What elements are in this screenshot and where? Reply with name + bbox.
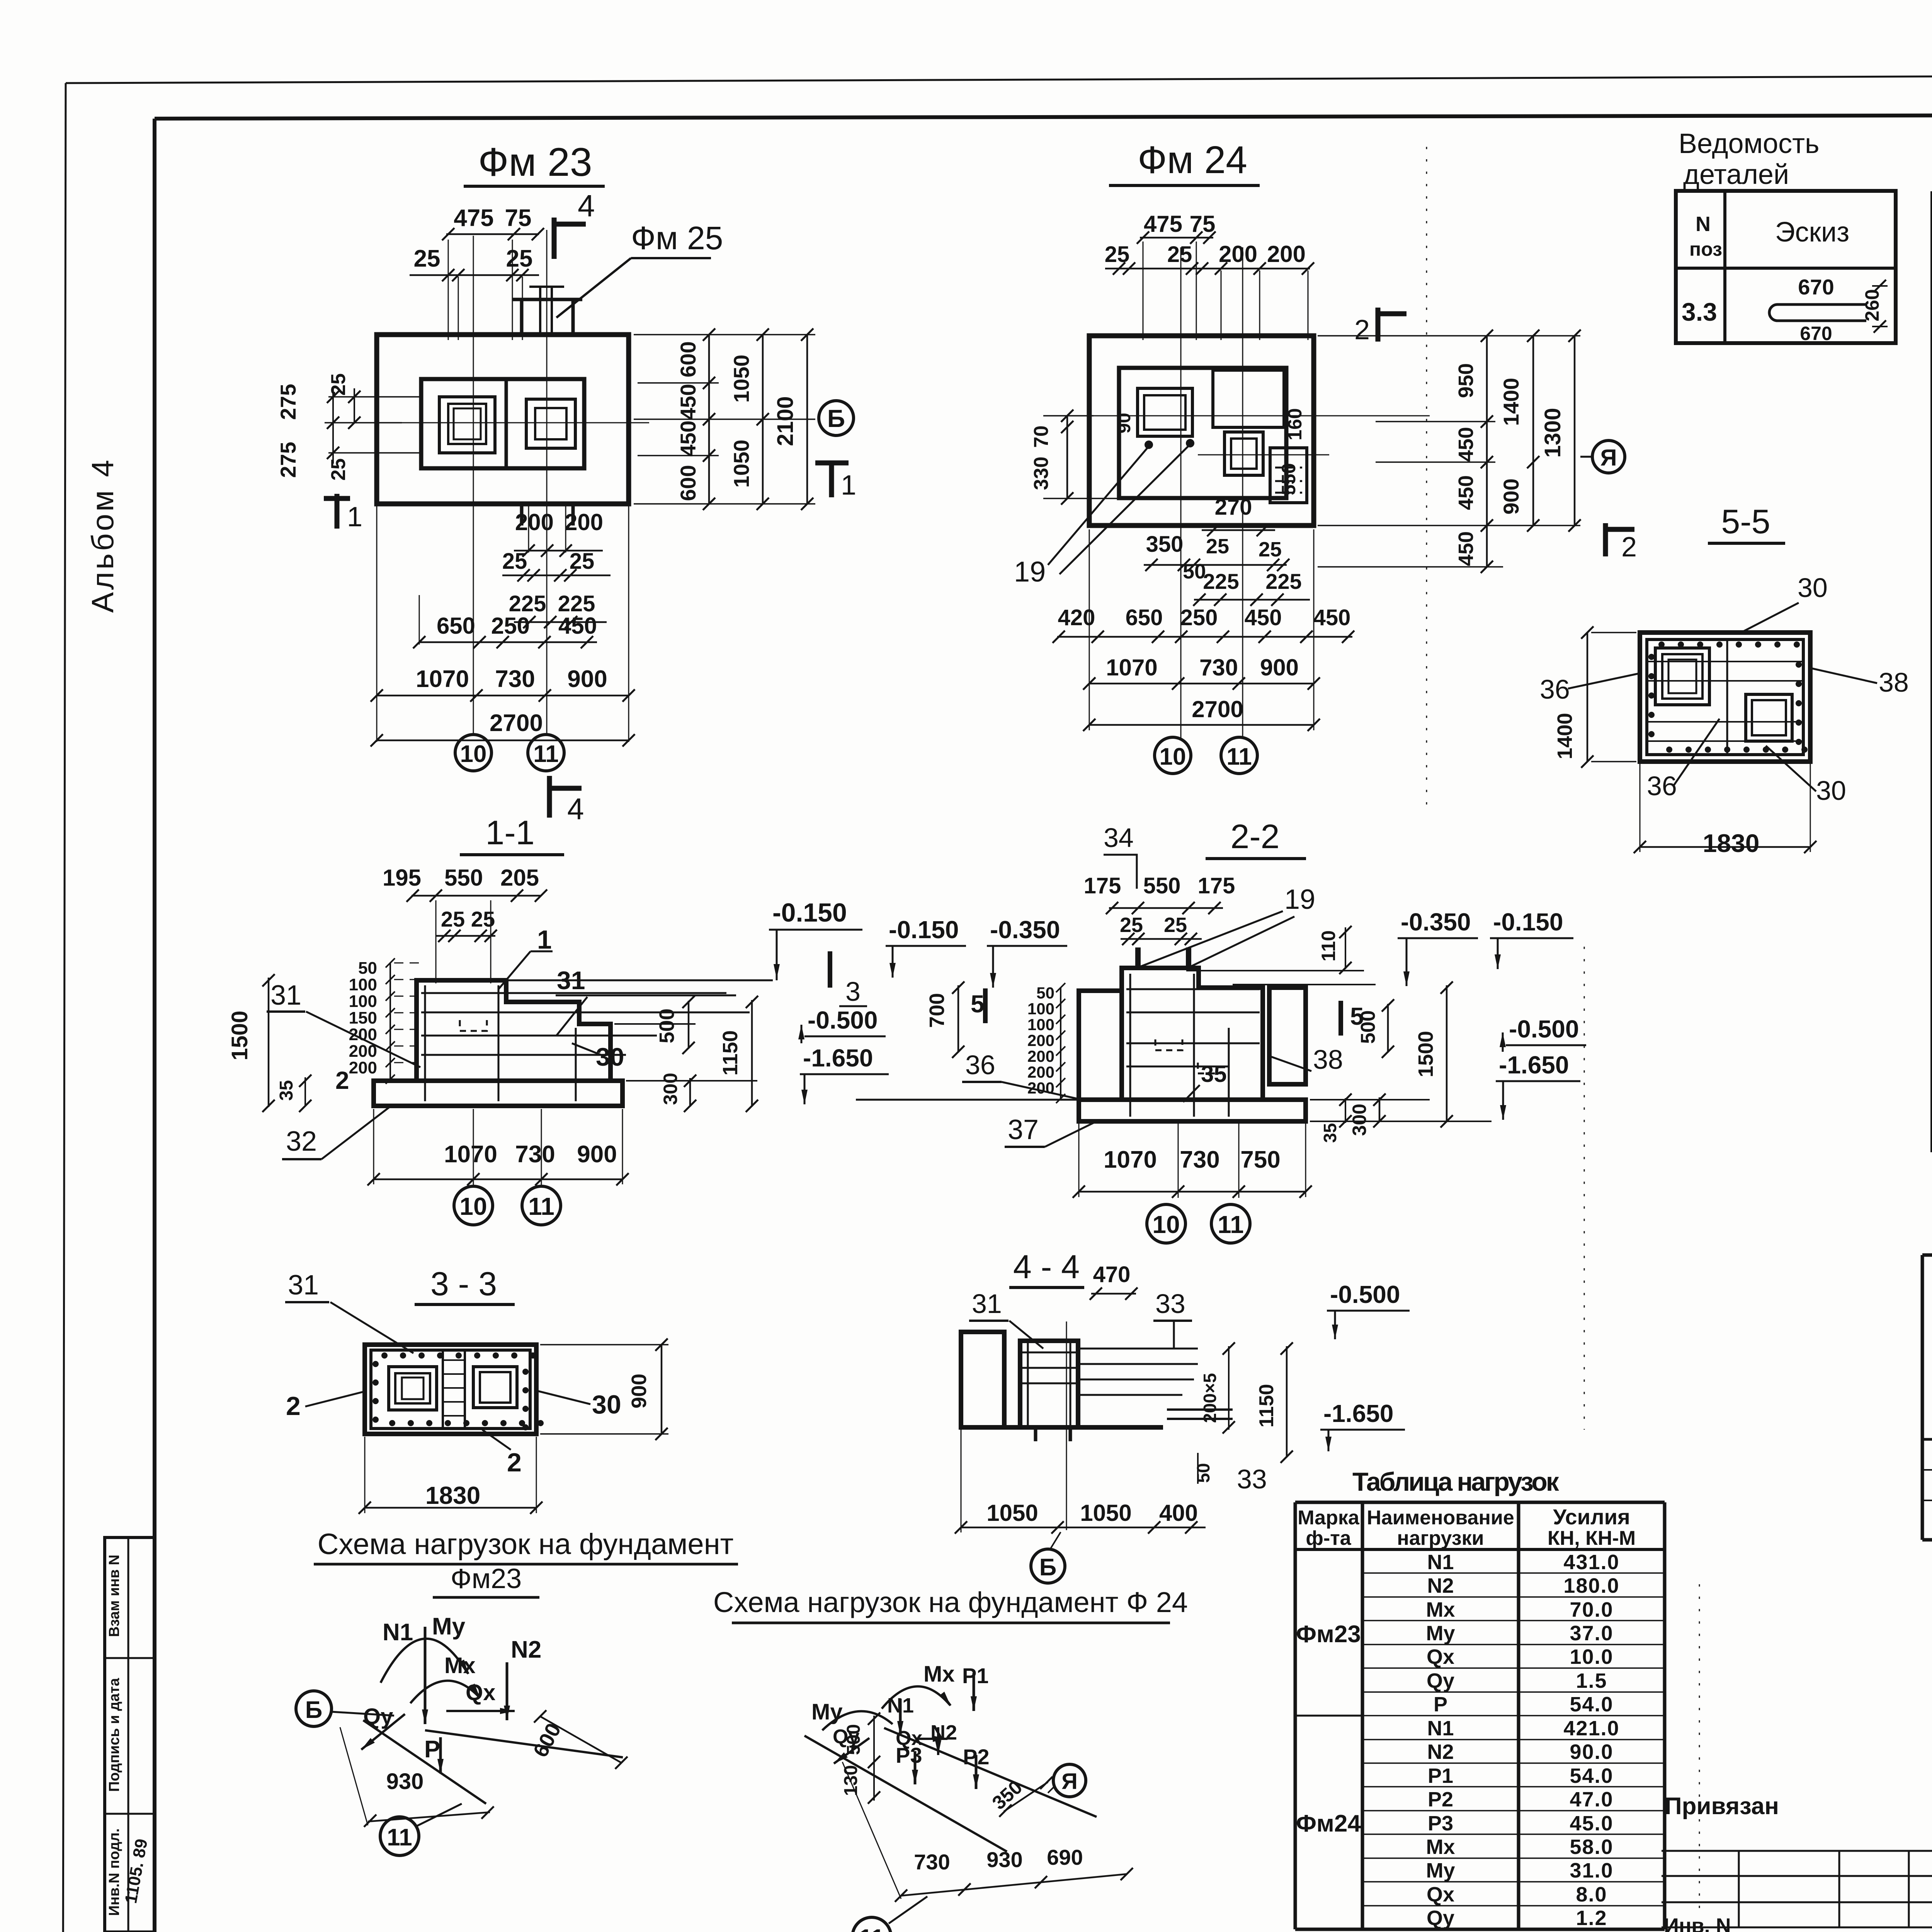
- svg-text:10.0: 10.0: [1570, 1645, 1613, 1668]
- svg-text:1070: 1070: [1104, 1146, 1157, 1173]
- svg-text:36: 36: [1540, 674, 1570, 704]
- svg-text:10: 10: [460, 741, 487, 767]
- svg-text:35: 35: [1320, 1123, 1340, 1143]
- svg-text:-0.150: -0.150: [889, 916, 959, 944]
- svg-text:2700: 2700: [1192, 696, 1243, 722]
- svg-text:Р1: Р1: [1428, 1764, 1453, 1787]
- svg-text:25: 25: [1105, 242, 1130, 267]
- svg-text:900: 900: [628, 1374, 651, 1408]
- svg-text:500: 500: [655, 1009, 679, 1043]
- svg-text:50: 50: [1036, 984, 1054, 1002]
- svg-text:2100: 2100: [773, 396, 798, 446]
- svg-text:260: 260: [1861, 289, 1883, 321]
- svg-text:450: 450: [1454, 475, 1478, 510]
- svg-text:10: 10: [459, 1192, 487, 1220]
- svg-text:58.0: 58.0: [1570, 1835, 1613, 1859]
- svg-text:38: 38: [1879, 667, 1909, 697]
- svg-text:N2: N2: [1427, 1740, 1454, 1764]
- svg-text:250: 250: [1180, 605, 1218, 630]
- svg-text:200: 200: [515, 509, 554, 535]
- svg-text:N2: N2: [511, 1636, 541, 1663]
- svg-text:550: 550: [444, 865, 483, 891]
- svg-text:25: 25: [414, 245, 440, 272]
- svg-text:11: 11: [1226, 743, 1252, 770]
- svg-text:300: 300: [1349, 1104, 1370, 1136]
- svg-text:250: 250: [491, 613, 530, 639]
- svg-text:Му: Му: [432, 1613, 466, 1640]
- svg-text:25: 25: [1167, 242, 1192, 267]
- svg-text:32: 32: [286, 1126, 317, 1157]
- svg-text:450: 450: [558, 613, 597, 639]
- svg-text:475: 475: [454, 205, 493, 231]
- svg-text:Мх: Мх: [444, 1653, 476, 1678]
- svg-text:2700: 2700: [490, 710, 543, 736]
- svg-text:Я: Я: [1061, 1769, 1078, 1794]
- svg-text:450: 450: [1454, 427, 1478, 462]
- svg-text:37.0: 37.0: [1570, 1622, 1613, 1645]
- svg-text:-0.150: -0.150: [1493, 908, 1563, 936]
- svg-text:Qх: Qх: [466, 1680, 495, 1705]
- svg-text:5: 5: [971, 990, 985, 1018]
- svg-text:11: 11: [528, 1192, 554, 1220]
- svg-text:Наименование: Наименование: [1367, 1507, 1514, 1529]
- svg-text:200×5: 200×5: [1200, 1373, 1220, 1423]
- svg-text:30: 30: [1816, 776, 1846, 806]
- svg-text:930: 930: [386, 1769, 424, 1794]
- svg-text:900: 900: [1260, 655, 1299, 680]
- svg-text:Б: Б: [305, 1697, 323, 1723]
- svg-text:1050: 1050: [729, 355, 753, 403]
- svg-text:-1.650: -1.650: [1499, 1051, 1569, 1079]
- svg-text:Му: Му: [1426, 1859, 1455, 1882]
- svg-text:Qу: Qу: [363, 1704, 393, 1729]
- svg-text:900: 900: [567, 666, 607, 692]
- svg-text:1400: 1400: [1553, 713, 1577, 759]
- svg-text:-0.350: -0.350: [990, 916, 1060, 944]
- svg-text:8.0: 8.0: [1576, 1883, 1607, 1906]
- svg-text:4: 4: [567, 792, 584, 826]
- svg-text:3.3: 3.3: [1682, 298, 1717, 326]
- svg-text:ф-та: ф-та: [1306, 1527, 1351, 1549]
- svg-text:300: 300: [660, 1073, 681, 1105]
- svg-text:47.0: 47.0: [1570, 1788, 1613, 1811]
- svg-text:600: 600: [676, 465, 700, 501]
- svg-text:25: 25: [327, 458, 350, 481]
- svg-text:2: 2: [286, 1391, 301, 1421]
- svg-text:Р: Р: [424, 1736, 440, 1763]
- svg-text:-0.150: -0.150: [772, 898, 847, 927]
- svg-text:200: 200: [349, 1058, 377, 1077]
- svg-text:Схема нагрузок на фундамент: Схема нагрузок на фундамент: [318, 1528, 734, 1561]
- svg-text:36: 36: [1647, 771, 1677, 801]
- svg-text:1.5: 1.5: [1576, 1669, 1607, 1692]
- svg-text:25: 25: [506, 245, 533, 272]
- svg-text:2: 2: [1621, 532, 1637, 563]
- svg-text:Таблица нагрузок: Таблица нагрузок: [1352, 1467, 1560, 1497]
- svg-text:Схема нагрузок на фундамент Ф: Схема нагрузок на фундамент Ф 24: [713, 1586, 1188, 1618]
- svg-text:34: 34: [1104, 823, 1134, 853]
- svg-text:3 - 3: 3 - 3: [430, 1265, 497, 1303]
- svg-text:-0.500: -0.500: [1330, 1281, 1400, 1308]
- svg-text:200: 200: [1219, 241, 1257, 267]
- svg-text:200: 200: [1027, 1063, 1054, 1081]
- svg-text:37: 37: [1008, 1114, 1039, 1145]
- svg-text:30: 30: [1798, 573, 1828, 603]
- svg-text:1050: 1050: [729, 440, 753, 488]
- svg-text:25: 25: [570, 549, 595, 574]
- svg-text:10: 10: [1152, 1211, 1180, 1238]
- svg-text:деталей: деталей: [1683, 159, 1789, 190]
- svg-text:2-2: 2-2: [1230, 817, 1279, 855]
- svg-text:475: 475: [1144, 211, 1182, 237]
- svg-text:11: 11: [859, 1925, 884, 1932]
- svg-text:2: 2: [1354, 315, 1370, 345]
- svg-text:54.0: 54.0: [1570, 1693, 1613, 1716]
- svg-text:50: 50: [1183, 560, 1206, 583]
- svg-text:N: N: [1696, 213, 1711, 236]
- svg-text:N1: N1: [383, 1619, 413, 1646]
- svg-text:-1.650: -1.650: [803, 1044, 873, 1072]
- svg-text:25: 25: [1206, 535, 1229, 558]
- svg-text:Альбом 4: Альбом 4: [85, 457, 120, 613]
- svg-text:1830: 1830: [1703, 829, 1760, 857]
- svg-text:31: 31: [557, 966, 585, 995]
- svg-text:75: 75: [505, 205, 532, 231]
- svg-text:25: 25: [441, 907, 465, 931]
- svg-text:38: 38: [1313, 1044, 1343, 1075]
- svg-text:Р: Р: [1434, 1693, 1447, 1716]
- svg-text:Мх: Мх: [923, 1662, 955, 1687]
- svg-text:Qу: Qу: [1427, 1669, 1454, 1692]
- svg-text:1-1: 1-1: [485, 813, 534, 852]
- svg-text:33: 33: [1155, 1289, 1185, 1319]
- svg-text:175: 175: [1198, 873, 1235, 898]
- svg-text:19: 19: [1014, 556, 1046, 588]
- svg-text:Фм24: Фм24: [1296, 1810, 1361, 1837]
- svg-text:930: 930: [986, 1847, 1022, 1872]
- svg-text:450: 450: [676, 420, 700, 456]
- svg-text:690: 690: [1047, 1845, 1083, 1869]
- svg-text:730: 730: [1199, 655, 1238, 680]
- svg-text:19: 19: [1284, 884, 1315, 915]
- svg-text:1.2: 1.2: [1576, 1906, 1607, 1930]
- svg-text:31.0: 31.0: [1570, 1859, 1613, 1882]
- svg-text:1050: 1050: [986, 1500, 1038, 1526]
- svg-text:25: 25: [1164, 913, 1187, 937]
- svg-text:Му: Му: [811, 1699, 843, 1725]
- svg-text:110: 110: [1318, 930, 1339, 962]
- svg-text:70: 70: [1030, 425, 1053, 448]
- svg-text:30: 30: [596, 1043, 624, 1071]
- svg-text:200: 200: [565, 509, 603, 535]
- svg-text:1070: 1070: [444, 1141, 497, 1168]
- svg-text:450: 450: [676, 384, 700, 420]
- svg-text:160: 160: [1284, 408, 1306, 440]
- svg-text:1300: 1300: [1540, 408, 1565, 457]
- svg-text:421.0: 421.0: [1563, 1717, 1619, 1740]
- svg-text:N2: N2: [1427, 1574, 1454, 1597]
- svg-text:-0.500: -0.500: [1509, 1015, 1579, 1043]
- svg-text:90: 90: [1114, 413, 1134, 433]
- svg-text:Я: Я: [1600, 445, 1617, 471]
- svg-text:5-5: 5-5: [1721, 502, 1770, 541]
- svg-text:Инв. N: Инв. N: [1664, 1914, 1731, 1932]
- svg-text:3: 3: [845, 976, 861, 1007]
- svg-text:900: 900: [1499, 478, 1523, 514]
- svg-text:25: 25: [502, 549, 527, 574]
- svg-text:175: 175: [1084, 873, 1121, 898]
- svg-text:200: 200: [1027, 1031, 1054, 1049]
- svg-text:450: 450: [1313, 605, 1351, 630]
- svg-text:700: 700: [925, 993, 949, 1028]
- svg-text:450: 450: [1245, 605, 1282, 630]
- svg-text:КН, КН-М: КН, КН-М: [1548, 1527, 1636, 1549]
- svg-text:500: 500: [844, 1724, 864, 1755]
- svg-text:330: 330: [1030, 457, 1053, 490]
- svg-text:33: 33: [1237, 1464, 1267, 1494]
- svg-text:750: 750: [1240, 1146, 1280, 1173]
- svg-text:31: 31: [288, 1270, 319, 1301]
- svg-text:11: 11: [533, 741, 559, 767]
- svg-text:-0.500: -0.500: [808, 1006, 878, 1034]
- svg-text:Фм 25: Фм 25: [631, 220, 723, 256]
- svg-text:1500: 1500: [1414, 1031, 1437, 1077]
- svg-text:150: 150: [349, 1009, 377, 1027]
- svg-text:Б: Б: [1039, 1554, 1057, 1581]
- svg-text:1: 1: [347, 502, 362, 532]
- svg-text:поз.: поз.: [1689, 238, 1728, 260]
- svg-text:2: 2: [507, 1448, 522, 1477]
- svg-text:Р1: Р1: [962, 1663, 989, 1688]
- svg-text:1070: 1070: [1106, 655, 1157, 680]
- svg-text:Мх: Мх: [1426, 1598, 1455, 1621]
- svg-text:Р3: Р3: [896, 1743, 922, 1767]
- svg-text:195: 195: [383, 865, 421, 891]
- svg-text:205: 205: [500, 865, 539, 891]
- svg-text:2: 2: [335, 1066, 349, 1094]
- svg-text:1830: 1830: [425, 1481, 480, 1509]
- svg-text:Р2: Р2: [1428, 1788, 1453, 1811]
- svg-text:30: 30: [592, 1390, 621, 1419]
- svg-text:Qх: Qх: [1427, 1883, 1454, 1906]
- svg-text:4: 4: [578, 189, 595, 223]
- svg-text:650: 650: [437, 613, 475, 639]
- svg-text:31: 31: [270, 980, 301, 1011]
- svg-text:180.0: 180.0: [1563, 1574, 1619, 1597]
- svg-text:450: 450: [1454, 531, 1478, 566]
- svg-text:670: 670: [1800, 323, 1832, 344]
- svg-text:31: 31: [972, 1289, 1002, 1319]
- svg-text:Ведомость: Ведомость: [1679, 128, 1820, 159]
- svg-text:400: 400: [1159, 1500, 1198, 1526]
- svg-text:10: 10: [1160, 743, 1186, 770]
- svg-text:Qу: Qу: [1427, 1906, 1454, 1930]
- svg-text:90.0: 90.0: [1570, 1740, 1613, 1764]
- svg-text:25: 25: [1120, 913, 1143, 937]
- svg-text:11: 11: [387, 1824, 412, 1851]
- svg-text:1070: 1070: [416, 666, 469, 692]
- svg-text:550: 550: [1278, 463, 1299, 495]
- svg-text:-0.350: -0.350: [1401, 908, 1471, 936]
- svg-text:950: 950: [1454, 363, 1478, 398]
- svg-text:Привязан: Привязан: [1665, 1793, 1779, 1820]
- svg-text:730: 730: [495, 666, 535, 692]
- svg-text:N2: N2: [930, 1721, 957, 1744]
- svg-text:Фм 24: Фм 24: [1138, 138, 1247, 182]
- svg-text:500: 500: [1357, 1010, 1379, 1044]
- svg-text:50: 50: [1193, 1463, 1213, 1483]
- svg-text:Р3: Р3: [1428, 1812, 1453, 1835]
- svg-text:Инв.N подл.: Инв.N подл.: [106, 1828, 122, 1916]
- svg-text:431.0: 431.0: [1563, 1551, 1619, 1574]
- svg-text:900: 900: [577, 1141, 617, 1168]
- svg-text:600: 600: [676, 341, 700, 377]
- svg-text:730: 730: [914, 1850, 950, 1874]
- svg-text:650: 650: [1126, 605, 1163, 630]
- svg-text:Эскиз: Эскиз: [1775, 217, 1849, 248]
- svg-text:Фм23: Фм23: [451, 1563, 522, 1594]
- svg-text:70.0: 70.0: [1570, 1598, 1613, 1621]
- svg-text:225: 225: [1265, 569, 1301, 594]
- svg-text:550: 550: [1143, 873, 1181, 898]
- svg-text:1150: 1150: [1255, 1384, 1278, 1428]
- svg-text:54.0: 54.0: [1570, 1764, 1613, 1787]
- svg-text:Марка: Марка: [1298, 1507, 1360, 1529]
- svg-text:670: 670: [1798, 275, 1834, 299]
- svg-text:Му: Му: [1426, 1622, 1455, 1645]
- svg-text:N1: N1: [887, 1694, 914, 1717]
- svg-text:Усилия: Усилия: [1553, 1505, 1630, 1529]
- svg-text:25: 25: [471, 907, 495, 931]
- svg-text:N1: N1: [1427, 1717, 1454, 1740]
- svg-text:45.0: 45.0: [1570, 1812, 1613, 1835]
- svg-text:75: 75: [1190, 211, 1216, 237]
- svg-text:Qх: Qх: [1427, 1645, 1454, 1668]
- svg-text:1050: 1050: [1080, 1500, 1131, 1526]
- svg-text:36: 36: [965, 1050, 995, 1080]
- svg-text:225: 225: [1203, 569, 1239, 594]
- svg-text:200: 200: [1027, 1047, 1054, 1065]
- svg-text:-1.650: -1.650: [1323, 1400, 1393, 1427]
- svg-text:4 - 4: 4 - 4: [1013, 1248, 1080, 1286]
- svg-text:470: 470: [1093, 1262, 1131, 1287]
- svg-text:200: 200: [1267, 241, 1306, 267]
- svg-text:N1: N1: [1427, 1551, 1454, 1574]
- svg-text:35: 35: [276, 1080, 297, 1100]
- svg-text:275: 275: [276, 384, 300, 420]
- svg-text:35: 35: [1201, 1061, 1227, 1087]
- svg-text:50: 50: [358, 959, 377, 978]
- svg-text:100: 100: [1027, 1015, 1054, 1034]
- svg-text:1: 1: [841, 470, 856, 501]
- svg-text:нагрузки: нагрузки: [1397, 1527, 1484, 1549]
- svg-text:275: 275: [276, 442, 300, 478]
- svg-text:Мх: Мх: [1426, 1835, 1455, 1859]
- svg-text:100: 100: [349, 992, 377, 1011]
- svg-text:1: 1: [537, 925, 552, 954]
- svg-text:Фм 23: Фм 23: [478, 140, 592, 185]
- svg-text:130: 130: [841, 1765, 861, 1796]
- svg-text:1400: 1400: [1499, 378, 1523, 426]
- svg-text:Подпись и дата: Подпись и дата: [106, 1678, 122, 1792]
- svg-text:Фм23: Фм23: [1296, 1621, 1361, 1648]
- svg-text:25: 25: [1259, 538, 1282, 561]
- svg-text:350: 350: [1146, 532, 1184, 557]
- svg-text:1150: 1150: [719, 1030, 742, 1075]
- svg-text:Взам инв N: Взам инв N: [106, 1554, 122, 1637]
- svg-text:270: 270: [1215, 495, 1252, 520]
- svg-text:730: 730: [1180, 1146, 1219, 1173]
- svg-text:100: 100: [1027, 1000, 1054, 1018]
- svg-text:1500: 1500: [227, 1010, 252, 1060]
- svg-text:11: 11: [1218, 1211, 1244, 1238]
- svg-text:730: 730: [515, 1141, 555, 1168]
- svg-text:Б: Б: [827, 405, 845, 432]
- svg-text:100: 100: [349, 975, 377, 994]
